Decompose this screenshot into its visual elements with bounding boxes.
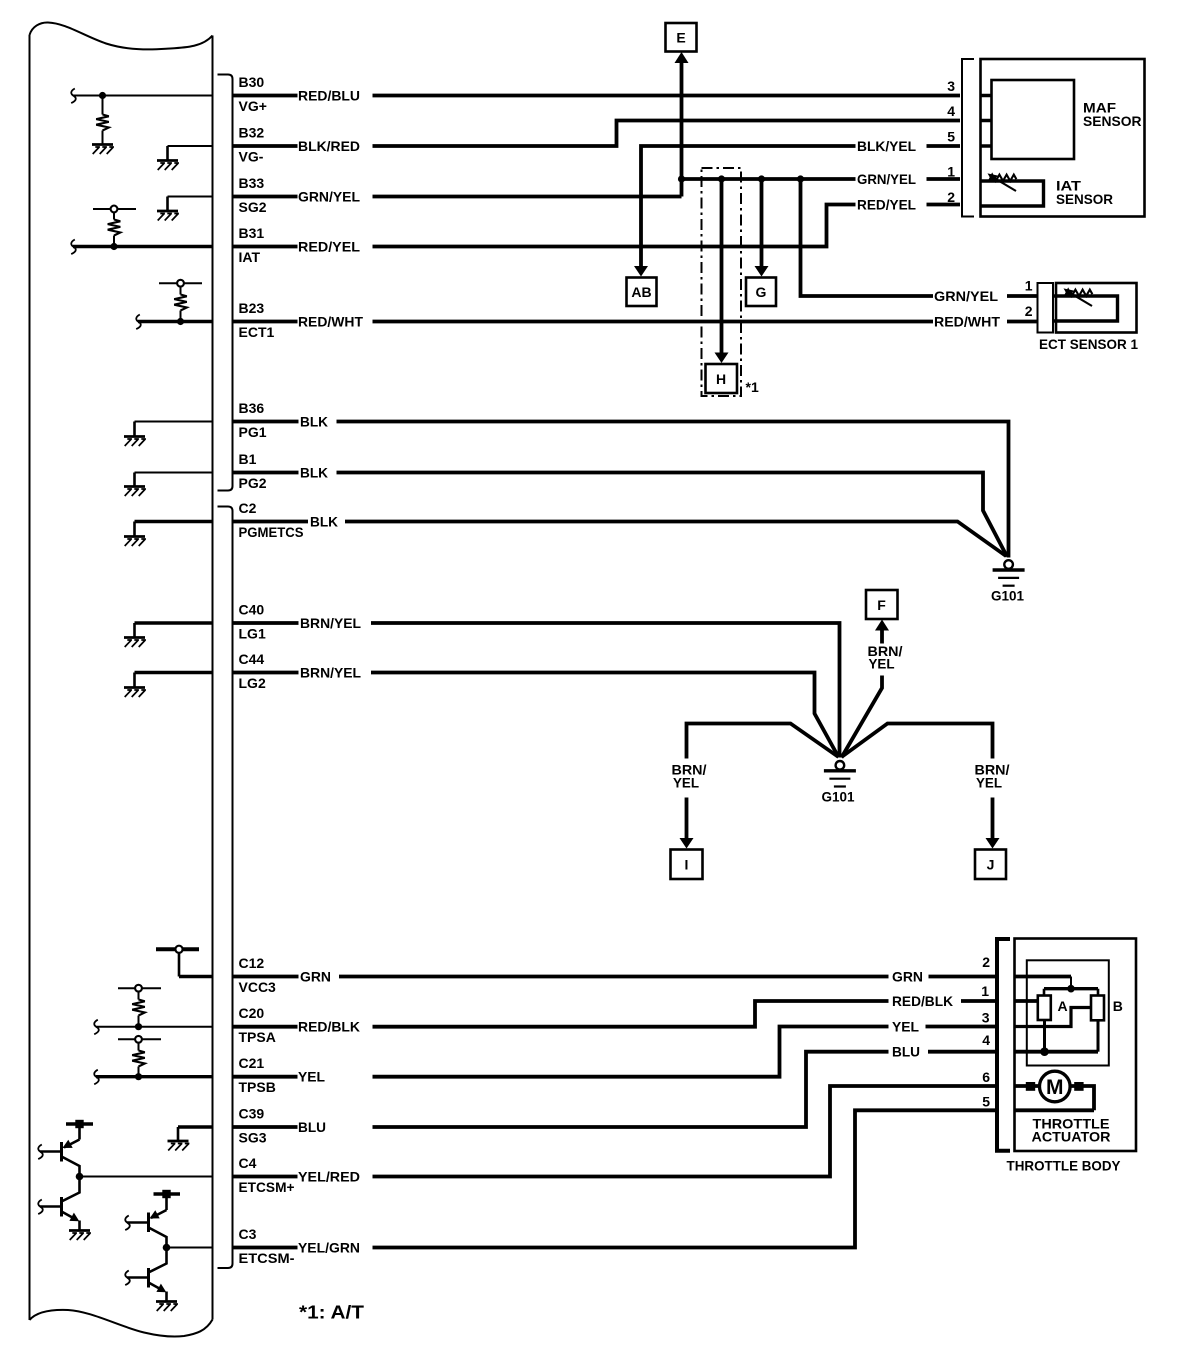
ECM internal TPSB line [94, 1070, 212, 1085]
connector J box [975, 850, 1006, 880]
svg-text:3: 3 [947, 78, 955, 94]
wire pin 3 wiper to potentiometer B [1015, 1008, 1091, 1027]
connector E box [666, 23, 697, 52]
wire RED/BLU B30 to MAF pin 3 [233, 88, 960, 104]
svg-text:BLK: BLK [300, 465, 328, 481]
wire pin 2 to sensor bus [1015, 977, 1071, 989]
svg-text:E: E [676, 30, 685, 46]
wire RED/WHT B23 to ECT sensor pin 2 [233, 314, 1038, 330]
svg-text:I: I [685, 857, 689, 873]
svg-text:GRN: GRN [300, 969, 331, 985]
MAF sensing element box [992, 80, 1075, 159]
svg-text:H: H [716, 371, 726, 387]
svg-text:RED/BLK: RED/BLK [892, 993, 953, 1009]
connector H box [706, 364, 738, 393]
svg-text:RED/WHT: RED/WHT [298, 314, 363, 330]
svg-text:C39: C39 [239, 1106, 265, 1122]
svg-text:*1: A/T: *1: A/T [299, 1303, 364, 1323]
pin C40 LG1 label [239, 602, 266, 642]
ECM internal PG1 ground [124, 422, 213, 447]
svg-text:YEL: YEL [673, 775, 699, 791]
wire YEL/RED C4 to throttle body pin 6 [233, 1086, 995, 1185]
node ETCSM- output junction [163, 1244, 171, 1252]
svg-text:*1: *1 [746, 379, 759, 395]
svg-text:4: 4 [947, 103, 955, 119]
svg-text:YEL: YEL [298, 1069, 325, 1085]
node common bus junction [1040, 1047, 1049, 1056]
throttle body connector bracket [997, 939, 1010, 1151]
wire to connector G (arrow down) [755, 179, 769, 277]
wire pin 4 common bus [1015, 1020, 1098, 1052]
svg-text:TPSB: TPSB [239, 1079, 276, 1095]
ECM internal PGMETCS ground [124, 522, 213, 547]
svg-text:YEL: YEL [892, 1019, 919, 1035]
node VG+ junction [99, 92, 106, 99]
pin B30 VG+ label [239, 74, 267, 114]
svg-text:BLK: BLK [310, 514, 338, 530]
MAF sensor pin numbers [947, 78, 955, 205]
ECM internal TPSA line [94, 1020, 212, 1035]
svg-text:SENSOR: SENSOR [1083, 113, 1142, 129]
label IAT SENSOR [1056, 178, 1113, 207]
svg-text:SG2: SG2 [239, 199, 267, 215]
svg-text:ACTUATOR: ACTUATOR [1032, 1129, 1111, 1145]
wire BLK/RED B32 to MAF pin 4 [233, 121, 960, 155]
supply rail TPSA [118, 985, 161, 992]
wire BRN/YEL C44 to G101 [233, 665, 839, 758]
svg-text:C44: C44 [239, 651, 265, 667]
A/T option dash-dot box around H [702, 168, 742, 396]
svg-text:GRN/YEL: GRN/YEL [934, 288, 998, 304]
svg-text:PGMETCS: PGMETCS [239, 524, 304, 540]
ground VG+ resistor [92, 145, 114, 155]
svg-text:C20: C20 [239, 1005, 265, 1021]
pull-up resistor on TPSA [132, 988, 145, 1026]
svg-text:C2: C2 [239, 500, 257, 516]
ECT sensor element loop [1053, 296, 1118, 321]
pull-up resistor on TPSB [132, 1039, 145, 1076]
svg-text:GRN/YEL: GRN/YEL [298, 189, 360, 205]
svg-text:GRN/YEL: GRN/YEL [857, 171, 916, 187]
pull-up resistor on IAT [108, 209, 121, 247]
svg-text:2: 2 [982, 954, 990, 970]
ECT sensor box [1056, 283, 1137, 333]
wire BRN/YEL to connector F (arrow up) [842, 620, 903, 758]
svg-text:1: 1 [981, 983, 989, 999]
svg-text:ETCSM+: ETCSM+ [239, 1179, 295, 1195]
svg-text:RED/YEL: RED/YEL [857, 197, 916, 213]
potentiometer A [1038, 996, 1068, 1021]
wire BRN/YEL C40 to G101 [233, 615, 840, 758]
svg-text:RED/WHT: RED/WHT [934, 314, 1000, 330]
wire to connector E (arrow up) [675, 52, 689, 179]
ground G101 upper [991, 560, 1025, 603]
svg-text:IAT: IAT [239, 249, 261, 265]
ECM internal ETCSM- line [167, 1247, 213, 1249]
ground G101 lower [822, 761, 856, 805]
ECT sensor connector [1038, 283, 1054, 333]
svg-text:B33: B33 [239, 175, 265, 191]
supply rail TPSB [118, 1036, 161, 1043]
svg-text:VCC3: VCC3 [239, 979, 277, 995]
svg-text:3: 3 [982, 1010, 990, 1026]
node ECT1 junction [177, 318, 184, 325]
svg-text:2: 2 [1025, 303, 1033, 319]
wire to connector H (arrow down) [715, 179, 729, 363]
svg-text:C21: C21 [239, 1055, 265, 1071]
transistor Q4 (NPN lower, ETCSM-) [125, 1248, 166, 1301]
svg-text:C3: C3 [239, 1226, 257, 1242]
svg-text:BLK/YEL: BLK/YEL [857, 138, 916, 154]
svg-text:C4: C4 [239, 1155, 257, 1171]
wire BLK C2 to G101 [233, 514, 1006, 557]
resistor on VG+ [96, 96, 109, 144]
ECM internal ETCSM+ line [80, 1176, 213, 1178]
svg-text:YEL/RED: YEL/RED [298, 1169, 360, 1185]
svg-text:ECT1: ECT1 [239, 324, 275, 340]
node IAT junction [110, 243, 117, 250]
node ETCSM+ output junction [76, 1173, 84, 1181]
supply bar ETCSM+ driver [66, 1120, 93, 1140]
pin C20 TPSA label [239, 1005, 276, 1045]
supply bar ETCSM- driver [154, 1190, 181, 1210]
svg-text:F: F [877, 597, 886, 613]
transistor Q1 (PNP upper, ETCSM+) [38, 1140, 79, 1177]
pin C39 SG3 label [239, 1106, 267, 1146]
svg-text:C40: C40 [239, 602, 265, 618]
svg-text:G101: G101 [822, 789, 855, 805]
svg-text:B: B [1113, 998, 1123, 1014]
label THROTTLE ACTUATOR [1032, 1116, 1111, 1145]
svg-text:AB: AB [631, 284, 651, 300]
svg-text:B23: B23 [239, 300, 265, 316]
wire BLK/YEL MAF pin 5 to connector AB [634, 138, 960, 277]
ground Q2 emitter [69, 1231, 91, 1241]
IAT sensor element loop [981, 181, 1044, 206]
svg-text:GRN: GRN [892, 969, 923, 985]
svg-text:BRN/YEL: BRN/YEL [300, 665, 361, 681]
pin B32 VG- label [239, 125, 265, 165]
wire YEL C21 to throttle body pin 3 [233, 1019, 995, 1085]
wire pin 5 to motor [1015, 1082, 1094, 1110]
node GRN/YEL at H branch [718, 175, 725, 182]
wire GRN C12 to throttle body pin 2 [233, 969, 995, 985]
wire RED/YEL B31 to MAF pin 2 [233, 197, 960, 255]
node TPSB junction [135, 1073, 142, 1080]
transistor Q2 (NPN lower, ETCSM+) [38, 1177, 79, 1230]
wire BRN/YEL to connector J (arrow down) [842, 724, 1010, 849]
svg-text:B36: B36 [239, 400, 265, 416]
pull-up resistor on ECT1 [174, 283, 187, 321]
svg-text:SG3: SG3 [239, 1130, 267, 1146]
ECM internal VG- ground [157, 146, 213, 170]
svg-text:ECT SENSOR 1: ECT SENSOR 1 [1039, 336, 1138, 352]
transistor Q3 (PNP upper, ETCSM-) [125, 1210, 166, 1248]
svg-text:PG2: PG2 [239, 475, 267, 491]
ECM internal SG2 ground [157, 197, 213, 221]
svg-text:4: 4 [982, 1032, 990, 1048]
pin B1 PG2 label [239, 451, 267, 491]
pin C12 VCC3 label [239, 955, 277, 995]
svg-text:BLU: BLU [298, 1119, 326, 1135]
throttle body pin numbers [981, 954, 990, 1110]
svg-text:VG+: VG+ [239, 98, 267, 114]
connector AB box [627, 278, 657, 307]
svg-text:B31: B31 [239, 225, 265, 241]
ground Q4 emitter [156, 1302, 178, 1312]
wire BLU C39 to throttle body pin 4 [233, 1044, 995, 1135]
supply rail IAT [93, 206, 136, 213]
svg-text:VG-: VG- [239, 149, 264, 165]
motor M (throttle actuator) [1040, 1071, 1071, 1102]
svg-text:LG1: LG1 [239, 626, 266, 642]
svg-text:5: 5 [982, 1094, 990, 1110]
svg-text:G: G [756, 284, 767, 300]
ECM connector B bracket [218, 75, 233, 491]
node GRN/YEL at E branch [678, 175, 685, 182]
wire BRN/YEL to connector I (arrow down) [672, 724, 839, 849]
ECM internal ECT1 line [136, 315, 212, 330]
pin C4 ETCSM+ label [239, 1155, 295, 1195]
wire YEL/GRN C3 to throttle body pin 5 [233, 1110, 995, 1255]
svg-text:C12: C12 [239, 955, 265, 971]
label MAF SENSOR [1083, 100, 1142, 129]
pin C3 ETCSM- label [239, 1226, 295, 1266]
svg-text:1: 1 [947, 164, 955, 180]
svg-text:PG1: PG1 [239, 424, 267, 440]
pin B36 PG1 label [239, 400, 267, 440]
pin B31 IAT label [239, 225, 265, 265]
ECM internal IAT line [71, 240, 212, 255]
svg-text:B1: B1 [239, 451, 257, 467]
pin C44 LG2 label [239, 651, 266, 691]
wire RED/BLK C20 to throttle body pin 1 [233, 993, 995, 1035]
svg-text:2: 2 [947, 189, 955, 205]
svg-text:G101: G101 [991, 588, 1024, 604]
svg-text:6: 6 [982, 1069, 990, 1085]
ECM connector C bracket [218, 507, 233, 1269]
svg-text:B30: B30 [239, 74, 265, 90]
supply rail ECT1 [159, 280, 202, 287]
wire pin 6 to motor [1015, 1082, 1039, 1091]
ECM internal VG+ line [71, 89, 212, 104]
thermistor ECT [1064, 288, 1093, 306]
ECT sensor pin numbers [1025, 278, 1033, 320]
ECM/PCM module box (torn edges) [30, 22, 213, 1336]
MAF sensor outer box [981, 59, 1145, 217]
MAF pin stubs [981, 96, 992, 147]
svg-text:YEL: YEL [976, 775, 1002, 791]
wire GRN/YEL bus to MAF pin 1 [682, 171, 961, 197]
MAF sensor connector bracket [962, 59, 974, 217]
svg-text:BLU: BLU [892, 1044, 920, 1060]
thermistor IAT [988, 173, 1017, 191]
svg-text:B32: B32 [239, 125, 265, 141]
connector I box [671, 850, 703, 880]
wire BLK B1 to G101 [233, 465, 1007, 557]
svg-text:RED/BLU: RED/BLU [298, 88, 360, 104]
wire GRN/YEL branch to ECT sensor pin 1 [801, 179, 1038, 304]
node GRN/YEL at G branch [758, 175, 765, 182]
wire pin 1 to potentiometer A [1015, 999, 1038, 1003]
pin B33 SG2 label [239, 175, 267, 215]
svg-text:BLK: BLK [300, 414, 328, 430]
node sensor bus junction [1067, 985, 1075, 993]
wire GRN/YEL B33 [233, 189, 682, 205]
svg-text:TPSA: TPSA [239, 1029, 276, 1045]
ECM internal LG1 ground [124, 623, 213, 647]
ECM internal SG3 ground [168, 1127, 213, 1151]
svg-text:M: M [1046, 1076, 1064, 1099]
svg-text:5: 5 [947, 129, 955, 145]
svg-text:1: 1 [1025, 278, 1033, 294]
throttle body box [1015, 939, 1137, 1152]
svg-text:J: J [987, 857, 995, 873]
connector F box [866, 590, 898, 619]
connector G box [746, 278, 776, 307]
svg-text:BLK/RED: BLK/RED [298, 138, 360, 154]
svg-text:YEL/GRN: YEL/GRN [298, 1240, 360, 1256]
svg-text:THROTTLE BODY: THROTTLE BODY [1007, 1158, 1122, 1174]
svg-text:ETCSM-: ETCSM- [239, 1250, 295, 1266]
node TPSA junction [135, 1023, 142, 1030]
wire BLK B36 to G101 [233, 414, 1009, 558]
throttle actuator box [1027, 960, 1109, 1065]
sensor supply bus [1044, 989, 1098, 996]
ECM internal PG2 ground [124, 473, 213, 497]
ECM internal VCC3 supply [156, 946, 213, 977]
ECM internal LG2 ground [124, 673, 213, 698]
node GRN/YEL at ECT branch [797, 175, 804, 182]
svg-text:RED/YEL: RED/YEL [298, 239, 360, 255]
svg-text:SENSOR: SENSOR [1056, 191, 1113, 207]
svg-text:A: A [1058, 998, 1068, 1014]
svg-text:BRN/YEL: BRN/YEL [300, 615, 361, 631]
svg-text:YEL: YEL [869, 656, 895, 672]
svg-text:LG2: LG2 [239, 675, 266, 691]
pin C2 PGMETCS label [239, 500, 304, 540]
svg-text:RED/BLK: RED/BLK [298, 1019, 360, 1035]
pin C21 TPSB label [239, 1055, 276, 1095]
potentiometer B [1091, 996, 1123, 1021]
pin B23 ECT1 label [239, 300, 275, 340]
